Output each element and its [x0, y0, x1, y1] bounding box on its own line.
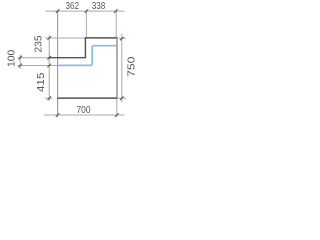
- svg-text:235: 235: [33, 35, 44, 52]
- glass line (blue): [58, 46, 116, 66]
- extension top level y=38 (left of step corner): [45, 37, 85, 39]
- wall left edge + extensions x=57.6: [57, 10, 59, 117]
- right dimension line 750: [121, 34, 123, 103]
- right edge: [116, 38, 118, 98]
- left dim line 100: [19, 55, 21, 70]
- wall outline dark: step + top edge: [49, 38, 118, 58]
- extension right bottom y=98.2: [118, 97, 126, 99]
- top dimension line: [46, 10, 125, 12]
- left dim column 235/415: [48, 36, 50, 101]
- extension vertical x=86.4 above wall: [85, 10, 87, 38]
- bottom dimension line: [44, 114, 125, 116]
- svg-text:100: 100: [7, 49, 18, 67]
- extension vertical x=116.8 below wall: [116, 98, 118, 117]
- svg-text:700: 700: [77, 105, 91, 116]
- dimension tick marks: [18, 9, 123, 117]
- extension vertical x=116.2 above wall: [115, 10, 117, 38]
- extension left y=57.7: [18, 57, 49, 59]
- svg-text:338: 338: [92, 1, 106, 12]
- extension stub bottom-left y=98.2: [45, 97, 53, 99]
- bottom edge: [57, 97, 117, 99]
- svg-text:415: 415: [36, 72, 47, 92]
- extension right top y=38.3: [118, 37, 126, 39]
- svg-text:750: 750: [127, 56, 138, 77]
- extension left y=65.5 (sill level): [17, 65, 57, 67]
- svg-text:362: 362: [65, 1, 79, 12]
